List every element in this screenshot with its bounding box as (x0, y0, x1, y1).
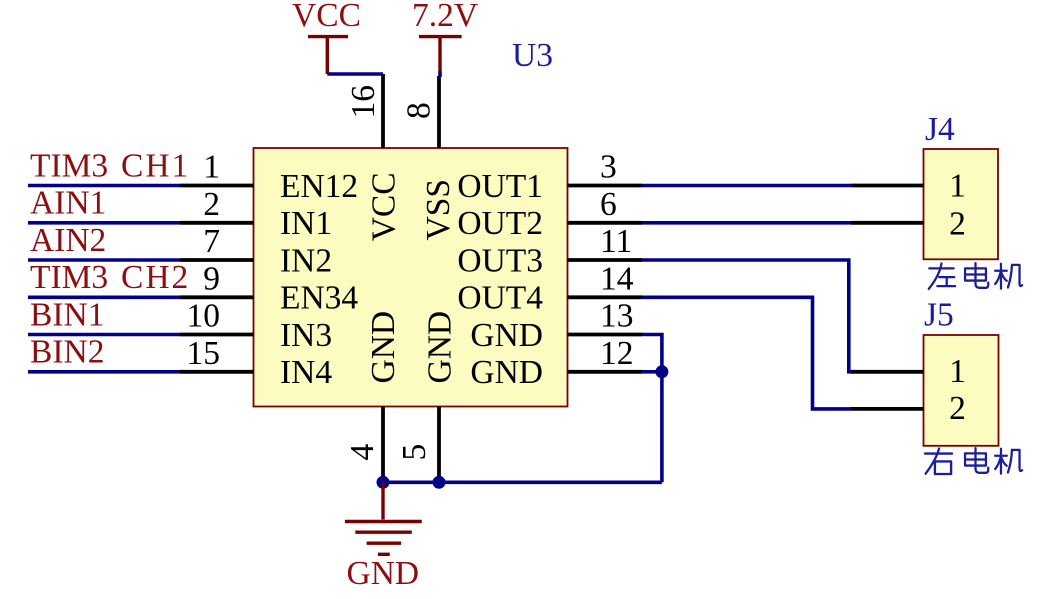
svg-text:AIN1: AIN1 (30, 185, 106, 222)
svg-text:14: 14 (600, 261, 634, 298)
svg-text:GND: GND (470, 317, 543, 354)
svg-text:OUT4: OUT4 (457, 280, 543, 317)
svg-text:12: 12 (600, 335, 634, 372)
wire GND pin12 stub (642, 370, 662, 374)
net label TIM3_CH2 (30, 259, 190, 296)
svg-text:15: 15 (187, 335, 221, 372)
svg-text:IN2: IN2 (280, 242, 332, 279)
pin 16 VCC top (345, 74, 403, 241)
svg-text:7: 7 (203, 223, 220, 260)
svg-text:BIN2: BIN2 (30, 334, 104, 371)
pin 5 GND bottom (396, 311, 459, 482)
designator J5 (924, 297, 954, 334)
pin 3 OUT1 (457, 149, 642, 205)
label left-motor (CJK drawn) (929, 263, 1022, 289)
junction pin12/pin13 net (655, 365, 668, 378)
label right-motor (CJK drawn) (925, 448, 1022, 474)
svg-text:10: 10 (187, 298, 221, 335)
net label TIM3_CH1 (30, 147, 190, 184)
pin 6 OUT2 (457, 186, 642, 242)
net label BIN1 (30, 296, 104, 333)
svg-text:OUT1: OUT1 (457, 168, 543, 205)
wire BIN1 (28, 333, 180, 337)
svg-text:U3: U3 (512, 37, 553, 74)
svg-text:1: 1 (203, 149, 220, 186)
pin 14 OUT4 (457, 261, 642, 317)
svg-text:7.2V: 7.2V (412, 0, 478, 34)
J5 pin 1 (851, 370, 924, 374)
svg-text:GND: GND (470, 354, 543, 391)
designator U3 (512, 37, 553, 74)
power port 7.2V (412, 0, 478, 71)
wire AIN1 (28, 221, 180, 225)
J5 pin 2 (851, 407, 924, 411)
power port VCC (292, 0, 361, 74)
pin 7 IN2 (180, 223, 332, 279)
svg-text:5: 5 (396, 444, 433, 461)
svg-text:3: 3 (600, 149, 617, 186)
svg-text:11: 11 (600, 223, 632, 260)
wire GND pin13 down (642, 335, 662, 483)
wire TIM3_CH2 (28, 295, 180, 299)
svg-text:TIM3: TIM3 (30, 259, 108, 296)
pin 15 IN4 (180, 335, 332, 391)
wire TIM3_CH1 (28, 184, 180, 188)
svg-text:4: 4 (344, 444, 381, 461)
wire OUT2 to J4 pin2 (642, 221, 851, 225)
pin 11 OUT3 (457, 223, 642, 279)
pin 13 GND (470, 298, 642, 354)
net label BIN2 (30, 334, 104, 371)
svg-text:GND: GND (365, 311, 402, 384)
svg-text:2: 2 (949, 390, 966, 427)
junction pin4 (377, 476, 390, 489)
svg-text:OUT2: OUT2 (457, 205, 543, 242)
pin 12 GND (470, 335, 642, 391)
wire OUT3 to J5 pin1 (642, 260, 851, 372)
svg-text:J4: J4 (925, 111, 955, 148)
svg-text:TIM3: TIM3 (30, 147, 108, 184)
connector J5 (924, 335, 999, 446)
designator J4 (925, 111, 955, 148)
svg-text:9: 9 (203, 261, 220, 298)
svg-text:GND: GND (422, 311, 459, 384)
svg-text:GND: GND (347, 555, 420, 592)
svg-text:OUT3: OUT3 (457, 242, 543, 279)
IC U3 body (254, 148, 568, 407)
connector J4 (924, 149, 999, 259)
svg-text:1: 1 (949, 353, 966, 390)
svg-text:2: 2 (949, 206, 966, 243)
svg-text:AIN2: AIN2 (30, 222, 106, 259)
pin 1 EN12 (180, 149, 358, 205)
wire BIN2 (28, 370, 180, 374)
net label AIN1 (30, 185, 106, 222)
J4 pin 2 (851, 221, 924, 225)
J4 pin 1 (851, 184, 924, 188)
svg-text:BIN1: BIN1 (30, 296, 104, 333)
svg-text:EN12: EN12 (280, 168, 358, 205)
svg-text:VSS: VSS (420, 179, 457, 240)
svg-text:VCC: VCC (366, 172, 403, 241)
wire OUT1 to J4 pin1 (642, 184, 851, 188)
svg-text:CH1: CH1 (121, 147, 190, 184)
svg-text:6: 6 (600, 186, 617, 223)
pin 2 IN1 (180, 186, 332, 242)
svg-text:IN3: IN3 (280, 317, 332, 354)
junction pin5 (433, 476, 446, 489)
pin 4 GND bottom (344, 311, 402, 482)
svg-text:VCC: VCC (292, 0, 361, 34)
wire AIN2 (28, 258, 180, 262)
svg-text:J5: J5 (924, 297, 954, 334)
svg-text:CH2: CH2 (121, 259, 190, 296)
svg-text:16: 16 (345, 85, 382, 119)
pin 8 VSS top (401, 76, 458, 241)
pin 9 EN34 (180, 261, 358, 317)
svg-text:IN1: IN1 (280, 205, 332, 242)
svg-text:2: 2 (203, 186, 220, 223)
wire VCC to pin16 (327, 72, 383, 76)
wire GND bottom horizontal (383, 480, 662, 484)
svg-text:13: 13 (600, 298, 634, 335)
svg-text:8: 8 (401, 102, 438, 119)
pin 10 IN3 (180, 298, 332, 354)
ground symbol GND (345, 482, 422, 592)
net label AIN2 (30, 222, 106, 259)
wire 7.2V stub to pin8 (438, 71, 442, 77)
svg-text:EN34: EN34 (280, 280, 358, 317)
wire OUT4 to J5 pin2 (642, 297, 851, 409)
svg-text:IN4: IN4 (280, 354, 332, 391)
svg-text:1: 1 (949, 167, 966, 204)
